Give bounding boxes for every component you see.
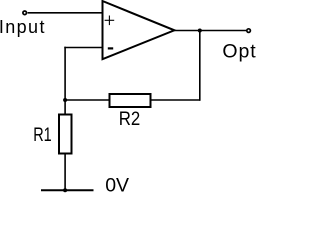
wire inverting input xyxy=(64,47,102,49)
junction ground node xyxy=(63,188,67,192)
output terminal xyxy=(247,29,251,33)
wire input to op-amp non-inverting input xyxy=(28,12,103,14)
svg-text:Opt: Opt xyxy=(222,41,256,63)
wire R2 to right vertical xyxy=(151,99,200,101)
svg-text:0V: 0V xyxy=(105,175,129,195)
pin - (inverting) xyxy=(108,47,113,49)
wire node to R2 xyxy=(65,99,109,101)
op-amp U1 xyxy=(103,1,175,59)
ground 0V rail xyxy=(41,189,94,191)
input terminal xyxy=(23,11,27,15)
wire feedback right vertical xyxy=(199,31,201,101)
wire output xyxy=(174,30,246,32)
resistor R1 xyxy=(59,115,72,154)
wire R1 to ground xyxy=(64,154,66,191)
svg-text:R2: R2 xyxy=(119,108,141,130)
node junction R1/R2 xyxy=(63,98,67,102)
wire feedback left vertical xyxy=(64,47,66,115)
pin + (non-inverting) xyxy=(105,16,115,26)
svg-text:R1: R1 xyxy=(33,124,52,146)
resistor R2 xyxy=(110,94,151,107)
svg-text:Input: Input xyxy=(0,17,46,37)
junction output node xyxy=(198,29,202,33)
